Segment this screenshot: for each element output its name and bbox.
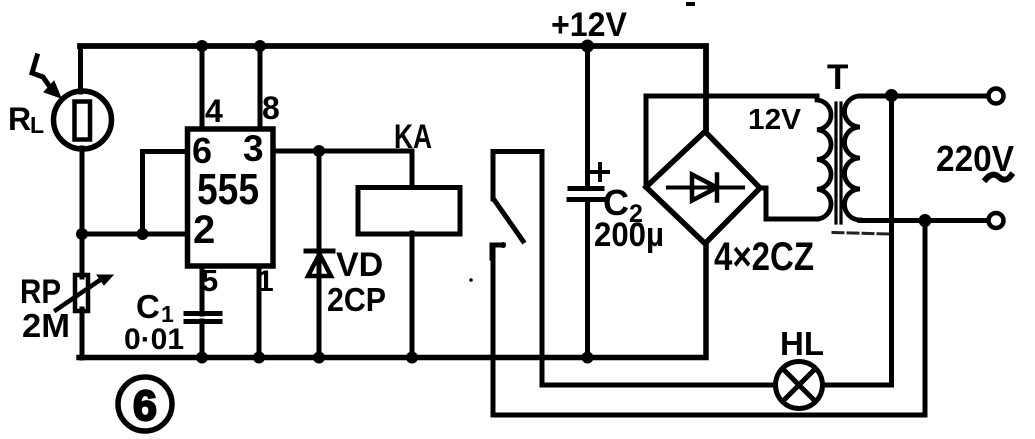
relay coil KA [358,151,460,358]
node junction KA/rail [406,352,418,364]
bridge rectifier 4x2CZ [646,132,760,244]
relay switch contact [492,152,542,259]
svg-text:8: 8 [262,90,280,126]
svg-text:4: 4 [205,93,223,129]
node junction pin4/rail [196,40,208,52]
node junction pin8/rail [254,40,266,52]
wire pin3 net to relay [273,149,412,154]
figure number 6 [118,377,172,431]
transformer T secondary winding [844,96,860,220]
pin 1 lead [257,266,262,358]
svg-text:2: 2 [193,208,215,252]
node junction C2/top rail [581,40,594,53]
svg-text:R: R [8,101,31,137]
node junction pin1/rail [253,352,265,364]
wire VD branch [317,151,322,358]
node junction RL/pin2 [76,228,88,240]
svg-text:5: 5 [201,263,218,298]
IC 555 U1 [188,129,274,266]
light arrow into RL [32,56,61,98]
label C2 [603,182,643,228]
wire bottom loop riser [923,221,928,416]
svg-text:+12V: +12V [551,6,627,44]
speck artifact top [686,2,695,6]
node junction pin6/pin2 [137,228,149,240]
wire RL top lead [78,46,83,92]
wire pin6 loop [143,152,188,235]
wire pin2 net horizontal [80,232,188,237]
potentiometer RP [75,275,88,311]
svg-text:200µ: 200µ [594,216,664,254]
pin 5 lead [200,266,205,314]
svg-text:6: 6 [192,130,212,171]
wire lamp return riser [821,96,892,385]
polarity plus of C2 [592,164,608,180]
capacitor C2 [569,46,607,358]
svg-text:1: 1 [257,265,274,298]
pin 8 lead [258,46,263,129]
wire RP bottom lead [80,309,85,358]
svg-text:2M: 2M [22,307,70,344]
svg-text:12V: 12V [748,104,802,136]
photoresistor RL [54,91,112,149]
wire bridge AC right to primary bottom [760,188,817,219]
node junction C2/rail [582,352,594,364]
wire switch left to bottom loop [493,245,925,415]
wire RL bottom lead [80,148,85,234]
pin 4 lead [200,46,205,129]
node junction C1/rail [196,352,208,364]
svg-text:VD: VD [336,246,383,284]
label RL [8,101,44,138]
node junction VD/pin3 [313,145,325,157]
node junction secondary bottom [919,214,932,227]
wire +12V top rail with drop to bridge top [80,46,706,132]
svg-text:555: 555 [197,165,259,214]
wire ground/bottom rail with rise to bridge bottom [79,243,706,358]
terminal 220V bottom [989,213,1004,228]
wire RP top lead [80,234,85,277]
node junction secondary top [885,89,898,102]
smudge under transformer [833,233,889,235]
wire bridge AC left to primary top [646,96,817,187]
svg-text:T: T [827,58,848,97]
svg-text:2CP: 2CP [327,281,386,318]
svg-text:KA: KA [394,118,432,156]
label C1 [136,288,174,327]
wire switch right drop [540,152,545,386]
svg-text:0·01: 0·01 [124,323,184,356]
diode VD [306,251,333,276]
capacitor C1 [186,314,220,359]
svg-text:HL: HL [780,325,824,362]
tilde AC mark [986,175,1011,180]
svg-text:6: 6 [133,382,157,430]
transformer T primary winding [817,96,831,219]
wire secondary bottom to terminal [860,218,988,223]
svg-text:C: C [136,288,160,325]
svg-text:4×2CZ: 4×2CZ [714,235,814,279]
wire secondary top to terminal [860,94,988,99]
svg-text:3: 3 [243,128,264,169]
wire lamp feed [542,383,777,388]
lamp HL [776,362,823,409]
arrow of RP [56,275,113,310]
svg-text:220V: 220V [936,138,1014,179]
svg-text:RP: RP [20,273,61,311]
terminal 220V top [989,89,1004,104]
speck artifact mid [469,278,473,282]
transformer core [836,103,841,223]
node junction VD/rail [313,352,325,364]
svg-text:L: L [30,112,44,138]
